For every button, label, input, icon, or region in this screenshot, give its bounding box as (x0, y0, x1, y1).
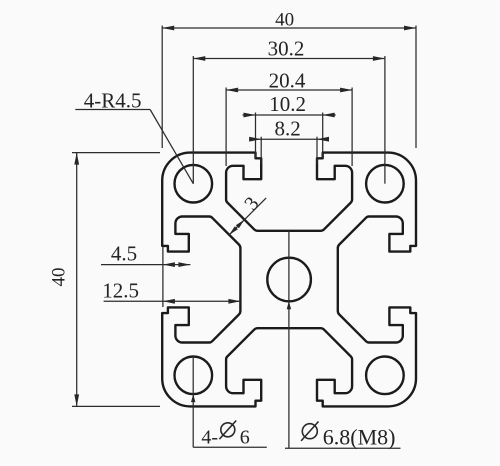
corner hole top-right (366, 165, 404, 203)
svg-text:20.4: 20.4 (269, 68, 306, 92)
label dia6.8(M8) with leader (288, 231, 290, 448)
center hole (267, 258, 311, 302)
dim 40 left (76, 153, 78, 407)
svg-text:8.2: 8.2 (274, 117, 300, 141)
svg-text:30.2: 30.2 (268, 37, 305, 61)
dim 4.5 (101, 264, 190, 266)
dim 10.2 (243, 114, 336, 116)
corner hole bottom-right (366, 357, 404, 395)
corner hole top-left (175, 165, 213, 203)
svg-text:4-R4.5: 4-R4.5 (84, 88, 142, 112)
dim 8.2 (249, 138, 329, 140)
dim 30.2 (193, 58, 385, 60)
label 4-dia6 with leader (192, 356, 194, 447)
dim 40 top (162, 27, 416, 29)
svg-text:6: 6 (240, 427, 250, 449)
svg-text:4-: 4- (201, 427, 218, 449)
svg-text:4.5: 4.5 (111, 242, 137, 266)
svg-text:40: 40 (275, 9, 294, 30)
svg-text:12.5: 12.5 (102, 278, 139, 302)
corner hole bottom-left (175, 357, 213, 395)
svg-text:6.8(M8): 6.8(M8) (323, 425, 396, 450)
label 3 (web thickness) with leader (229, 198, 266, 235)
dim 12.5 (104, 300, 241, 302)
profile outline (162, 153, 416, 407)
svg-text:10.2: 10.2 (269, 92, 306, 116)
svg-text:40: 40 (49, 268, 70, 287)
dim 20.4 (226, 89, 352, 91)
